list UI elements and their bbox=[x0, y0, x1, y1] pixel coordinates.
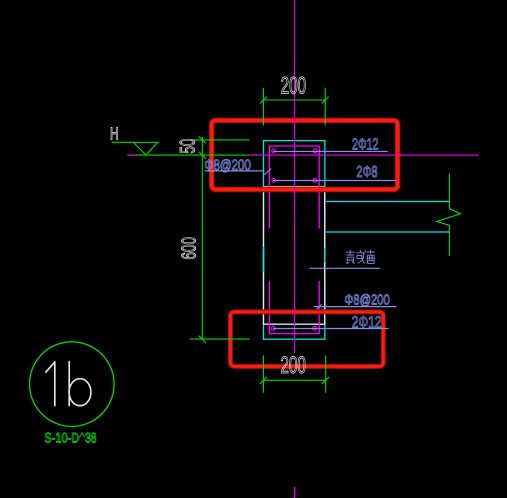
red highlight box top glow bbox=[212, 120, 398, 189]
wall bottom extension line (green) bbox=[190, 338, 250, 340]
red highlight box top bbox=[212, 120, 398, 189]
vertical dimension line 50/600 bbox=[201, 137, 203, 339]
rebar circle bottom-right bbox=[313, 327, 317, 331]
stirrup label leader bottom-right (blue) bbox=[314, 306, 397, 308]
top 200 dimension line bbox=[263, 99, 325, 101]
stirrup bottom zone (magenta open rect) bbox=[269, 281, 319, 334]
stirrup leader slash bottom-right bbox=[317, 304, 322, 309]
bottom 200 dimension extension right bbox=[325, 355, 327, 392]
svg-text:2Φ12: 2Φ12 bbox=[352, 314, 382, 332]
roof slab top edge (cyan) bbox=[326, 201, 449, 203]
waterline level line (green) bbox=[136, 154, 249, 156]
slab break line (green zigzag) bbox=[437, 173, 461, 256]
svg-text:2Φ12: 2Φ12 bbox=[352, 137, 379, 154]
centerline bottom dash bbox=[294, 487, 296, 498]
caret of drawing ref bbox=[79, 433, 84, 438]
red highlight box bottom glow bbox=[230, 312, 383, 367]
svg-text:600: 600 bbox=[178, 237, 200, 260]
bottom 200 dimension extension left bbox=[262, 355, 264, 392]
rebar circle mid-left bbox=[272, 179, 276, 183]
svg-text:S-10-D: S-10-D bbox=[44, 429, 79, 445]
detail bubble circle (green) bbox=[30, 342, 115, 427]
beam-or-wall label leader (blue) bbox=[309, 267, 380, 269]
top 200 dimension extension right bbox=[324, 88, 326, 126]
cyan segment on right wall face bbox=[324, 248, 326, 262]
svg-text:Φ8@200: Φ8@200 bbox=[204, 157, 251, 174]
rebar leader line 2phi8 (blue) bbox=[273, 180, 396, 182]
top 200 tick left bbox=[260, 97, 267, 104]
stirrup leader slash top-left bbox=[264, 169, 271, 175]
red highlight box bottom bbox=[230, 312, 383, 367]
bottom 200 tick left bbox=[260, 377, 267, 384]
svg-text:200: 200 bbox=[280, 352, 306, 379]
rebar circle mid-right bbox=[313, 179, 317, 183]
svg-text:50: 50 bbox=[177, 139, 200, 154]
rebar leader line 2phi12 bottom (blue) bbox=[273, 328, 389, 330]
wall top extension line (green) bbox=[191, 139, 249, 141]
rebar circle bottom-left bbox=[271, 327, 275, 331]
svg-text:2Φ8: 2Φ8 bbox=[356, 164, 377, 181]
label beam-or-wall (blue CJK strokes) bbox=[346, 250, 375, 264]
tick at waterline bbox=[199, 152, 206, 159]
wall outer outline (cyan) bbox=[264, 141, 325, 340]
bottom 200 dimension line bbox=[263, 379, 325, 381]
centerline (magenta) bbox=[294, 0, 296, 353]
svg-text:38: 38 bbox=[85, 429, 97, 445]
roof slab bottom edge (cyan) bbox=[326, 231, 449, 233]
svg-text:Φ8@200: Φ8@200 bbox=[344, 292, 389, 308]
detail bubble text 1b (white hand strokes) bbox=[46, 362, 91, 406]
rebar circle top-left bbox=[272, 149, 276, 153]
top 200 dimension extension left bbox=[262, 88, 264, 126]
bottom 200 tick right bbox=[322, 377, 329, 384]
cyan segment on left wall face bbox=[263, 247, 265, 272]
stirrup label leader top-left (blue) bbox=[205, 170, 264, 172]
beam outline below roof (white) bbox=[264, 187, 325, 325]
level H line (green) bbox=[112, 141, 159, 143]
waterline level line continuation (magenta) bbox=[249, 154, 478, 156]
stirrup top zone (magenta open rect) bbox=[269, 146, 319, 228]
svg-text:H: H bbox=[110, 123, 119, 143]
tick at wall top bbox=[199, 136, 206, 143]
rebar circle top-right bbox=[313, 149, 317, 153]
magenta dash left of level line bbox=[127, 154, 136, 156]
top 200 tick right bbox=[322, 97, 329, 104]
level symbol triangle bbox=[133, 142, 157, 155]
tick at wall bottom bbox=[199, 336, 206, 343]
rebar leader line 2phi12 top (blue) bbox=[273, 150, 388, 152]
svg-text:200: 200 bbox=[281, 73, 307, 100]
